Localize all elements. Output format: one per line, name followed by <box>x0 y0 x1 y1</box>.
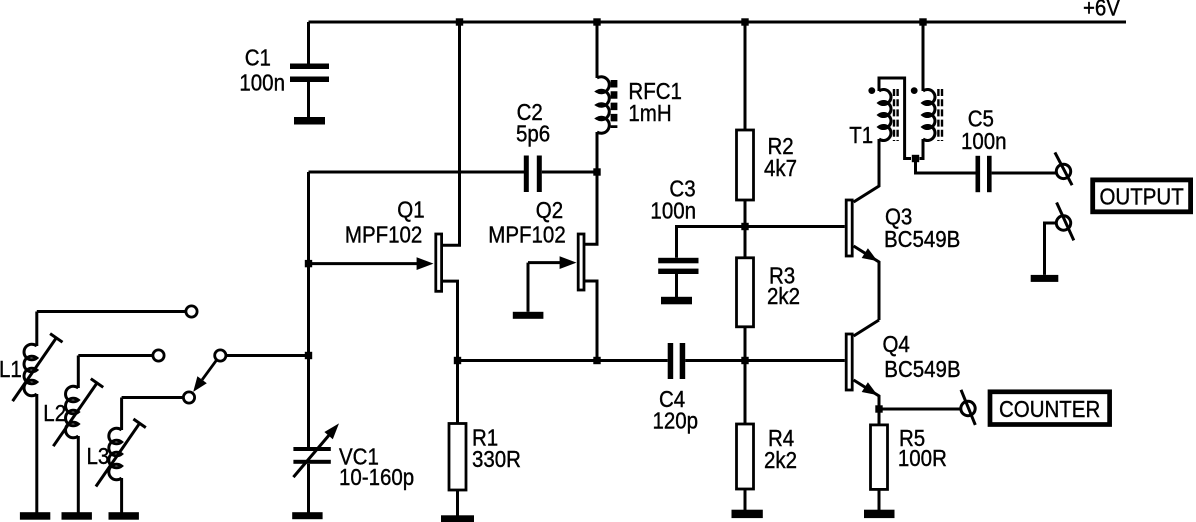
junction T1 tap <box>912 155 919 162</box>
resistor R5 <box>871 425 888 490</box>
wire RFC1 top <box>596 22 599 78</box>
switch contact 1 <box>186 306 197 317</box>
ground R4 <box>732 510 763 518</box>
svg-text:1mH: 1mH <box>628 100 671 126</box>
wire contact1 to L1 <box>37 310 186 313</box>
svg-text:L3: L3 <box>87 443 110 469</box>
svg-text:4k7: 4k7 <box>764 155 797 181</box>
arrow L3 <box>96 423 140 486</box>
resistor R4 <box>737 424 754 489</box>
label box OUTPUT <box>1093 180 1191 212</box>
junction gate <box>305 260 312 267</box>
transformer T1 secondary <box>922 22 925 91</box>
wire R2 top <box>744 22 747 130</box>
resistor R1 <box>449 424 466 491</box>
svg-text:330R: 330R <box>472 446 521 472</box>
junction C2/RFC1/Q2 drain <box>593 168 600 175</box>
ground C3 <box>661 297 692 305</box>
wire switch pole <box>226 354 309 357</box>
ground R1 <box>441 515 474 522</box>
inductor RFC1 <box>597 77 609 134</box>
arrow L2 <box>53 383 97 446</box>
svg-text:10-160p: 10-160p <box>339 464 414 490</box>
svg-text:T1: T1 <box>849 122 873 148</box>
ground L1 <box>20 512 50 520</box>
junction switch pole wire <box>305 352 312 359</box>
ground output jack <box>1031 275 1059 282</box>
junction rail/R2 <box>741 18 748 25</box>
wire R1 bottom <box>456 490 459 516</box>
svg-text:Q4: Q4 <box>883 331 910 357</box>
wire R1 top <box>456 361 459 424</box>
arrow VC1 <box>293 434 330 477</box>
wire output ground <box>1045 223 1057 275</box>
wire Q3 emitter <box>854 246 879 320</box>
wire Q4 emitter <box>854 380 879 409</box>
wire Q3 base <box>745 225 845 228</box>
svg-text:2k2: 2k2 <box>764 447 797 473</box>
svg-text:5p6: 5p6 <box>516 120 550 146</box>
transistor Q3 <box>846 200 852 256</box>
capacitor C5 <box>976 156 981 192</box>
svg-text:Q2: Q2 <box>536 197 563 223</box>
svg-text:100n: 100n <box>239 69 285 95</box>
connector output jack <box>1056 164 1070 178</box>
junction main/Q2 source <box>593 357 600 364</box>
switch contact 2 <box>153 350 164 361</box>
wire Q2 gate <box>528 261 562 264</box>
wire counter <box>879 408 961 411</box>
wire R4 top <box>744 361 747 425</box>
wire Q2 drain <box>585 172 598 244</box>
wire contact2 to L2 <box>78 354 152 357</box>
wire RFC1 bottom <box>596 132 599 172</box>
junction rail/C1-Q1 <box>456 18 463 25</box>
wire Q4 collector <box>854 320 879 336</box>
connector counter jack <box>961 401 975 415</box>
wire tank top (gate line y=172) <box>309 171 525 174</box>
wire main y=360.5 left <box>458 359 668 362</box>
inductor L1 <box>35 312 38 347</box>
resistor R3 <box>737 258 754 327</box>
switch arm <box>202 360 216 380</box>
wire R4 bottom <box>744 489 747 510</box>
svg-text:MPF102: MPF102 <box>488 221 565 247</box>
capacitor C1 <box>290 64 329 70</box>
wire C3 branch <box>677 227 746 258</box>
wire Q1 gate <box>309 262 420 265</box>
wire R3 bottom <box>744 327 747 361</box>
inductor L2 <box>77 356 80 389</box>
dot T1 primary <box>868 87 875 94</box>
dot T1 secondary <box>911 87 918 94</box>
inductor L3 <box>120 398 123 431</box>
wire C1 top <box>307 22 310 64</box>
capacitor C2 <box>524 156 529 193</box>
wire R2 bottom <box>744 200 747 227</box>
switch pole contact <box>215 350 226 361</box>
svg-text:2k2: 2k2 <box>767 283 800 309</box>
arrow L1 <box>13 338 57 401</box>
svg-text:C1: C1 <box>245 44 271 70</box>
wire Q1 drain <box>443 22 460 245</box>
wire Q3 collector <box>854 139 879 202</box>
wire R3 top <box>744 227 747 258</box>
capacitor C4 <box>668 343 674 379</box>
ground C1 <box>294 117 325 125</box>
svg-text:OUTPUT: OUTPUT <box>1099 183 1183 209</box>
label box COUNTER <box>990 392 1110 425</box>
svg-text:100R: 100R <box>898 445 947 471</box>
wire T1 tap to C5 <box>916 159 976 174</box>
wire C5 right <box>992 172 1057 175</box>
wire C1 bottom <box>307 82 310 117</box>
wire contact3 to L3 <box>122 396 184 399</box>
resistor R2 <box>737 130 754 200</box>
svg-text:COUNTER: COUNTER <box>999 396 1100 422</box>
wire R5 top <box>878 409 881 425</box>
capacitor VC1 <box>293 447 330 451</box>
wire Q1 source <box>443 281 458 360</box>
transistor Q1 <box>436 234 442 291</box>
transistor Q2 <box>578 234 584 290</box>
junction rail/RFC1 <box>593 18 600 25</box>
connector output ground jack <box>1056 216 1070 230</box>
svg-text:120p: 120p <box>653 407 699 433</box>
ground VC1 <box>292 512 322 519</box>
wire C2 right <box>542 171 597 174</box>
wire Q2 gate ground <box>527 263 530 312</box>
svg-text:BC549B: BC549B <box>884 356 960 382</box>
svg-text:L2: L2 <box>43 400 66 426</box>
svg-text:100n: 100n <box>961 128 1007 154</box>
transistor Q4 <box>846 334 852 390</box>
capacitor C3 <box>658 258 698 264</box>
junction main/Q1 source/R1 <box>454 357 461 364</box>
ground R5 <box>864 510 895 518</box>
svg-text:BC549B: BC549B <box>884 226 960 252</box>
wire R5 bottom <box>878 489 881 510</box>
svg-text:MPF102: MPF102 <box>345 221 422 247</box>
wire tank vertical <box>307 172 310 447</box>
transformer T1 primary <box>879 78 911 159</box>
svg-text:100n: 100n <box>650 197 696 223</box>
switch contact 3 <box>183 392 194 403</box>
wire +6V rail <box>309 21 1127 24</box>
junction main/R3/R4 <box>741 357 748 364</box>
svg-text:Q1: Q1 <box>397 196 424 222</box>
wire C3 bottom <box>675 274 678 297</box>
ground L3 <box>109 512 139 520</box>
wire VC1 bottom <box>307 464 310 513</box>
svg-text:L1: L1 <box>0 356 22 382</box>
junction rail/T1 <box>919 18 926 25</box>
ground Q2 gate <box>513 312 544 319</box>
junction R2/R3/C3/Q3 <box>741 223 748 230</box>
wire Q2 source <box>585 281 598 361</box>
ground L2 <box>62 512 92 520</box>
svg-text:+6V: +6V <box>1083 0 1120 21</box>
junction Q4 emitter/R5/counter <box>875 405 882 412</box>
wire main y=360.5 right <box>685 359 845 362</box>
